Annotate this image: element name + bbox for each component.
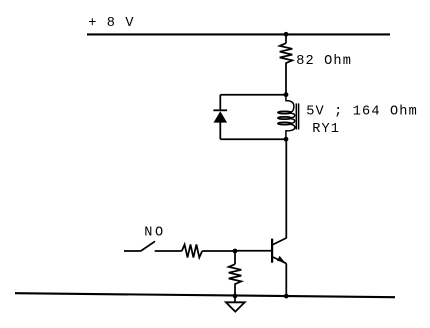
wire R2 to base node — [202, 250, 235, 252]
wire node B to collector — [285, 139, 287, 238]
junction node A — [284, 92, 289, 97]
ground stem — [234, 296, 236, 302]
transistor Q1 collector diagonal — [273, 238, 287, 245]
resistor R2 base series — [182, 245, 202, 258]
transistor Q1 base bar — [271, 239, 273, 263]
ground triangle — [226, 302, 245, 311]
diode D1 cathode bar — [213, 109, 227, 111]
junction R3/rail — [233, 294, 238, 299]
switch S1 left lead — [124, 250, 141, 252]
junction node B — [284, 137, 289, 142]
switch S1 right lead wire — [155, 250, 182, 252]
wire base node to R3 — [234, 251, 236, 264]
bottom rail — [15, 293, 395, 297]
transistor Q1 emitter arrow — [277, 256, 284, 262]
relay core line 2 — [298, 103, 300, 129]
svg-text:5V ; 164 Ohm: 5V ; 164 Ohm — [306, 104, 418, 119]
resistor R3 base-emitter — [229, 264, 242, 286]
svg-text:82 Ohm: 82 Ohm — [296, 54, 352, 69]
diode D1 bottom lead — [219, 123, 221, 140]
relay coil RY1 — [286, 95, 294, 113]
relay core line 1 — [295, 103, 297, 129]
wire rail to R1 — [285, 34, 287, 43]
wire bottom parallel — [220, 138, 286, 140]
wire emitter to rail — [285, 263, 287, 296]
junction base node — [233, 249, 238, 254]
switch S1 arm — [141, 241, 155, 251]
diode D1 top lead — [219, 95, 221, 111]
resistor R1 82 Ohm — [280, 43, 293, 64]
junction emitter/rail — [284, 294, 289, 299]
svg-text:RY1: RY1 — [312, 122, 340, 137]
svg-text:+ 8 V: + 8 V — [88, 16, 135, 31]
transistor Q1 emitter diagonal — [273, 257, 287, 263]
wire top parallel — [220, 94, 286, 96]
svg-text:NO: NO — [144, 226, 166, 241]
junction rail/R1 — [284, 32, 289, 37]
wire R3 to rail — [234, 286, 236, 296]
wire R1 to node A — [285, 65, 287, 95]
base wire — [235, 250, 271, 252]
diode D1 triangle — [214, 111, 228, 122]
+8V rail — [87, 33, 390, 35]
